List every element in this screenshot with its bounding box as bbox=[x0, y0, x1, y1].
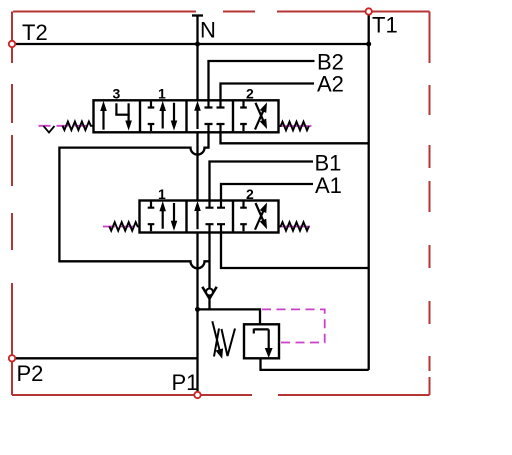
svg-text:B1: B1 bbox=[315, 151, 342, 176]
spring left of valve V2 bbox=[109, 222, 139, 231]
enclosure dashed boundary bottom bbox=[12, 394, 430, 396]
wire valve V2 bottom port down to pump node (through check valve) bbox=[208, 233, 210, 310]
svg-text:A1: A1 bbox=[315, 173, 342, 198]
relief valve RV adjustable spring with arrow bbox=[212, 321, 235, 357]
wire bypass from valve V1 bottom port with hop over supply bbox=[59, 132, 209, 268]
magenta pilot line left of valve V2 bbox=[103, 226, 140, 228]
svg-text:T2: T2 bbox=[22, 20, 48, 45]
wire P2 port line bbox=[12, 357, 198, 359]
spring left of valve V1 bbox=[63, 122, 94, 131]
valve V2 body bbox=[140, 201, 279, 233]
wire N supply down to valve V1 bbox=[196, 16, 198, 101]
svg-text:2: 2 bbox=[246, 186, 254, 202]
spring right of valve V1 bbox=[279, 122, 309, 131]
svg-text:P2: P2 bbox=[17, 361, 44, 386]
svg-text:1: 1 bbox=[158, 86, 166, 102]
svg-text:3: 3 bbox=[113, 86, 121, 102]
valve V2 position 1 symbols bbox=[148, 201, 177, 232]
valve V1 body bbox=[94, 100, 279, 132]
wire valve V2 tank stub to T1 line bbox=[221, 233, 369, 269]
wire A2 work port line bbox=[221, 84, 315, 101]
detent notch on pilot line left of valve V1 bbox=[44, 126, 55, 133]
wire relief valve outlet to tank return bbox=[261, 358, 369, 370]
svg-text:A2: A2 bbox=[317, 72, 344, 97]
junction node at T1 on tank bus bbox=[366, 42, 371, 47]
valve V2 position 2 symbols: closed port and crossed arrows bbox=[240, 201, 266, 232]
junction node at N on tank bus bbox=[195, 42, 200, 47]
check valve ball and seat on P line bbox=[202, 287, 216, 299]
magenta pilot line of relief valve RV bbox=[262, 309, 325, 342]
wire T1 vertical tank return bbox=[368, 12, 370, 370]
wire valve V1 tank stub to T1 line bbox=[221, 132, 369, 143]
svg-text:N: N bbox=[200, 18, 216, 43]
svg-text:T1: T1 bbox=[372, 13, 398, 38]
wire B2 work port line bbox=[209, 61, 315, 100]
enclosure dashed boundary top bbox=[12, 12, 430, 396]
port P2 node circle bbox=[9, 355, 15, 361]
valve V1 position 3 symbols: float path with down arrow bbox=[115, 103, 117, 114]
spring right of valve V2 bbox=[279, 222, 309, 231]
wire supply below valve V2 to P1 port bbox=[196, 233, 198, 396]
enclosure dashed boundary right bbox=[429, 12, 431, 396]
port P1 node circle bbox=[194, 392, 200, 398]
valve V2 neutral position symbols bbox=[195, 201, 225, 233]
relief valve RV body bbox=[244, 324, 279, 358]
wire A1 work port line bbox=[221, 184, 313, 201]
junction node at pump bus P bbox=[195, 307, 200, 312]
relief valve RV internal flow arrow bbox=[254, 329, 272, 357]
port N plug cap bbox=[192, 14, 203, 16]
port T1 node circle bbox=[366, 8, 372, 14]
valve V1 position 3 symbols: up arrow bbox=[101, 103, 131, 130]
wire B1 work port line bbox=[210, 162, 314, 201]
wire pump bus P to relief valve bbox=[198, 309, 261, 324]
magenta pilot line left of valve V1 bbox=[39, 125, 94, 127]
valve V1 position 1 symbols bbox=[148, 100, 177, 131]
svg-text:P1: P1 bbox=[172, 370, 199, 395]
svg-text:1: 1 bbox=[158, 186, 166, 202]
valve V1 neutral position symbols bbox=[195, 100, 225, 132]
wire top tank bus T2 to T1 bbox=[12, 43, 369, 45]
port T2 node circle bbox=[9, 41, 15, 47]
magenta pilot line right of valve V2 bbox=[279, 226, 311, 228]
svg-text:2: 2 bbox=[246, 86, 254, 102]
wire supply between valve V1 and valve V2 bbox=[196, 132, 198, 200]
magenta pilot line right of valve V1 bbox=[279, 125, 312, 127]
valve V1 position 2 symbols: closed port and crossed arrows bbox=[240, 100, 266, 131]
enclosure dashed boundary left bbox=[11, 12, 13, 396]
